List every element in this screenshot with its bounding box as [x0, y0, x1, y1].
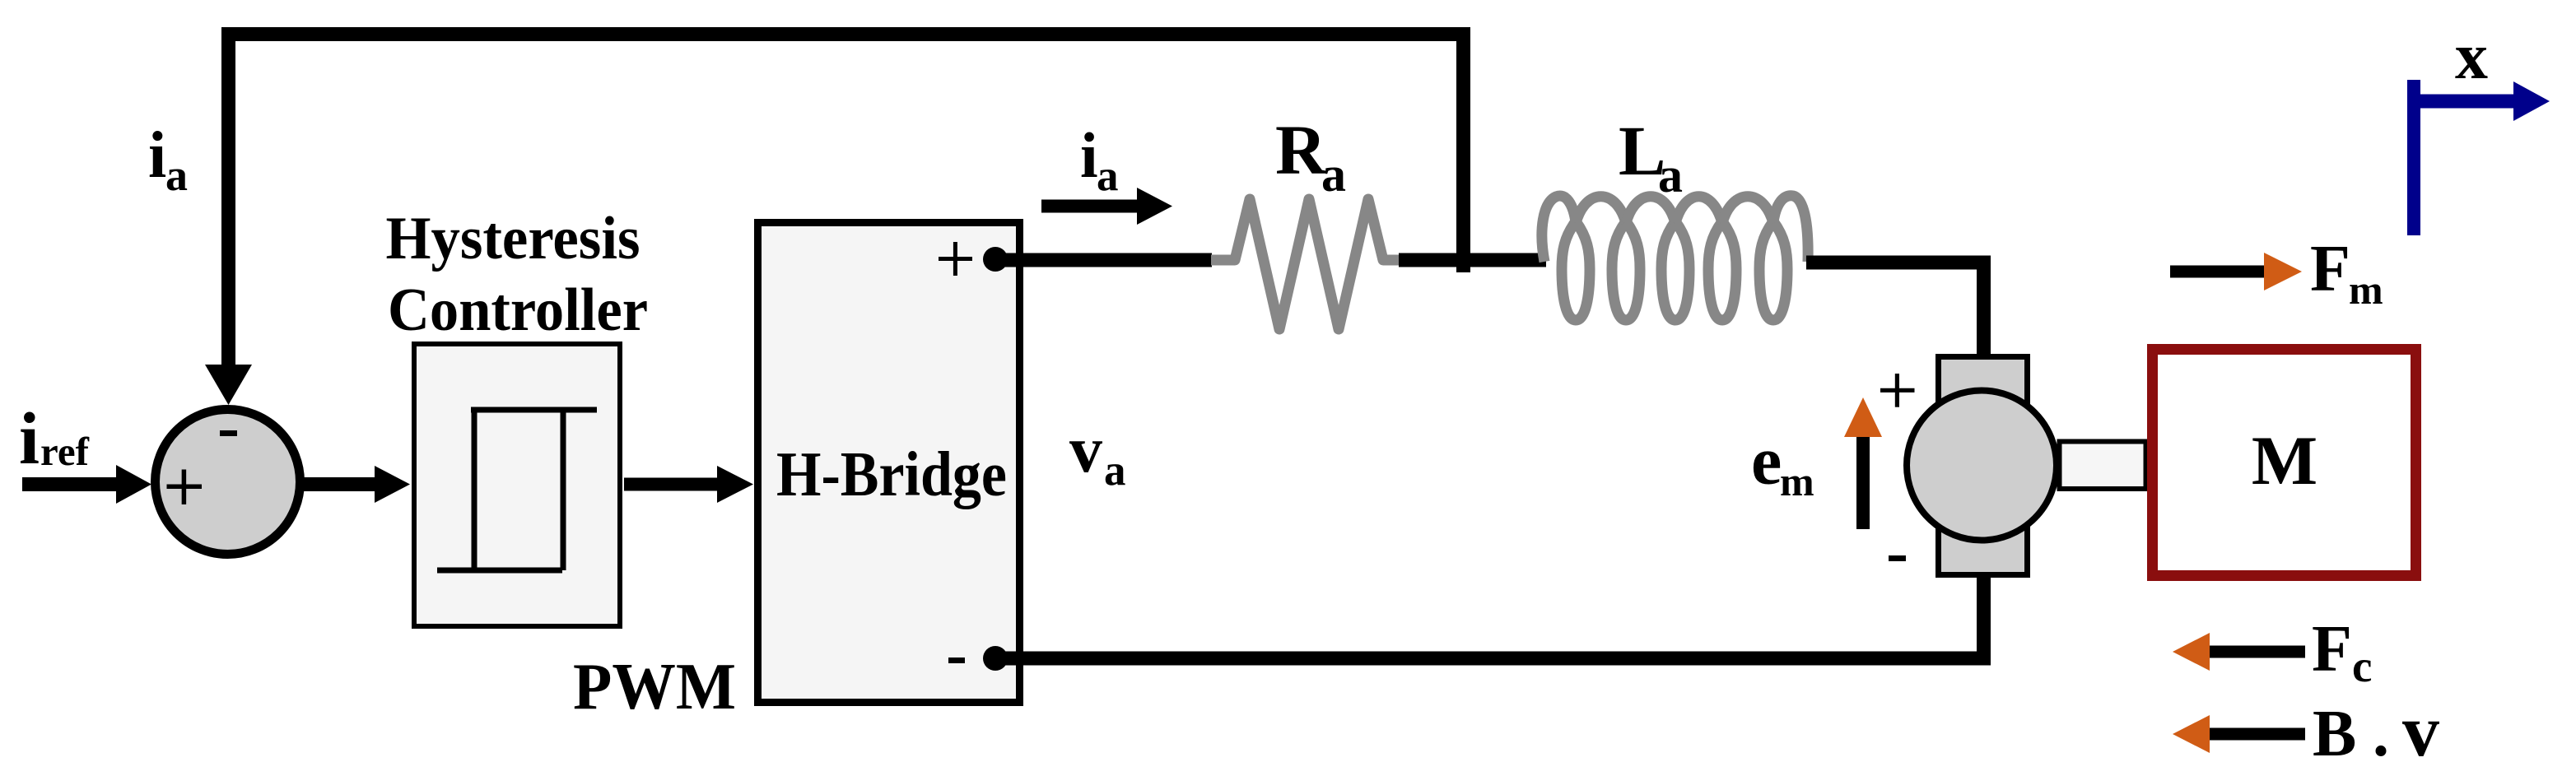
arrowhead feedback into summer — [205, 365, 252, 405]
svg-text:c: c — [2352, 641, 2372, 691]
summing junction — [156, 410, 300, 555]
svg-text:a: a — [165, 151, 188, 200]
label ia feedback — [148, 119, 188, 200]
svg-text:v: v — [1069, 414, 1102, 486]
svg-text:a: a — [1321, 147, 1346, 202]
wire resistor to inductor — [1399, 253, 1546, 267]
arrowhead input — [116, 465, 151, 504]
minus sign summer — [220, 430, 237, 436]
terminal dot plus — [983, 247, 1008, 272]
inductor La coil — [1542, 196, 1808, 320]
label iref — [19, 398, 90, 480]
label Fc — [2312, 613, 2372, 691]
svg-text:PWM: PWM — [573, 651, 736, 723]
arrowhead x axis — [2513, 81, 2550, 121]
label em — [1751, 423, 1814, 505]
force arrow Bv — [2209, 728, 2305, 741]
plus sign H-bridge — [939, 242, 972, 276]
arrowhead ia — [1137, 188, 1172, 225]
svg-text:i: i — [19, 398, 40, 480]
arrowhead Bv orange — [2173, 715, 2210, 753]
svg-text:e: e — [1751, 423, 1782, 500]
wire H-bridge plus to resistor — [995, 253, 1212, 267]
relay symbol — [437, 410, 597, 570]
shaft — [2060, 442, 2146, 490]
motor brush top — [1939, 357, 2028, 423]
wire feedback loop ia — [229, 35, 1464, 369]
label Ra — [1275, 110, 1346, 202]
wire inductor to motor — [1806, 263, 1984, 356]
mass block M — [2153, 350, 2416, 576]
svg-text:x: x — [2455, 21, 2488, 93]
H-bridge block — [758, 223, 1020, 703]
label Hysteresis Controller — [386, 205, 649, 344]
current arrow ia — [1041, 200, 1138, 213]
plus sign motor — [1880, 374, 1915, 407]
force arrow Fm — [2170, 266, 2266, 278]
wire controller to H-bridge — [624, 478, 718, 491]
svg-text:M: M — [2252, 422, 2317, 500]
minus sign H-bridge — [948, 658, 965, 663]
svg-text:m: m — [2349, 267, 2383, 313]
svg-text:ref: ref — [40, 429, 90, 474]
svg-text:F: F — [2310, 233, 2350, 305]
svg-text:.: . — [2373, 698, 2389, 770]
motor brush bottom — [1939, 509, 2028, 575]
terminal dot minus — [983, 646, 1008, 671]
wire input iref — [22, 477, 117, 491]
arrowhead em orange — [1844, 397, 1882, 437]
wire motor bottom to H-bridge minus — [995, 572, 1984, 658]
hysteresis controller block — [414, 344, 620, 626]
plus sign summer — [167, 470, 203, 505]
wire summer to controller — [301, 477, 375, 491]
label ia current — [1080, 119, 1119, 200]
arrowhead into H-bridge — [717, 466, 753, 503]
arrowhead into controller — [375, 466, 410, 503]
minus sign motor — [1889, 555, 1906, 561]
arrowhead Fc orange — [2173, 633, 2210, 671]
label Bv — [2313, 690, 2439, 772]
svg-text:Controller: Controller — [388, 276, 648, 344]
svg-text:v: v — [2402, 690, 2439, 772]
resistor Ra — [1211, 199, 1400, 329]
svg-text:m: m — [1780, 458, 1814, 504]
svg-text:H-Bridge: H-Bridge — [776, 439, 1007, 509]
force arrow Fc — [2209, 646, 2305, 658]
label La — [1619, 111, 1683, 202]
svg-text:a: a — [1097, 152, 1119, 200]
svg-text:i: i — [148, 119, 166, 192]
svg-text:Hysteresis: Hysteresis — [386, 205, 641, 272]
svg-text:a: a — [1658, 148, 1683, 202]
motor circle — [1907, 391, 2057, 541]
svg-text:i: i — [1080, 119, 1098, 191]
svg-text:B: B — [2313, 698, 2356, 770]
label Fm — [2310, 233, 2383, 313]
svg-text:R: R — [1275, 110, 1327, 189]
emf arrow em — [1856, 437, 1870, 529]
arrowhead Fm orange — [2264, 253, 2302, 290]
x axis — [2414, 80, 2514, 235]
svg-text:F: F — [2312, 613, 2352, 685]
svg-text:a: a — [1104, 447, 1126, 495]
label va — [1069, 414, 1126, 495]
